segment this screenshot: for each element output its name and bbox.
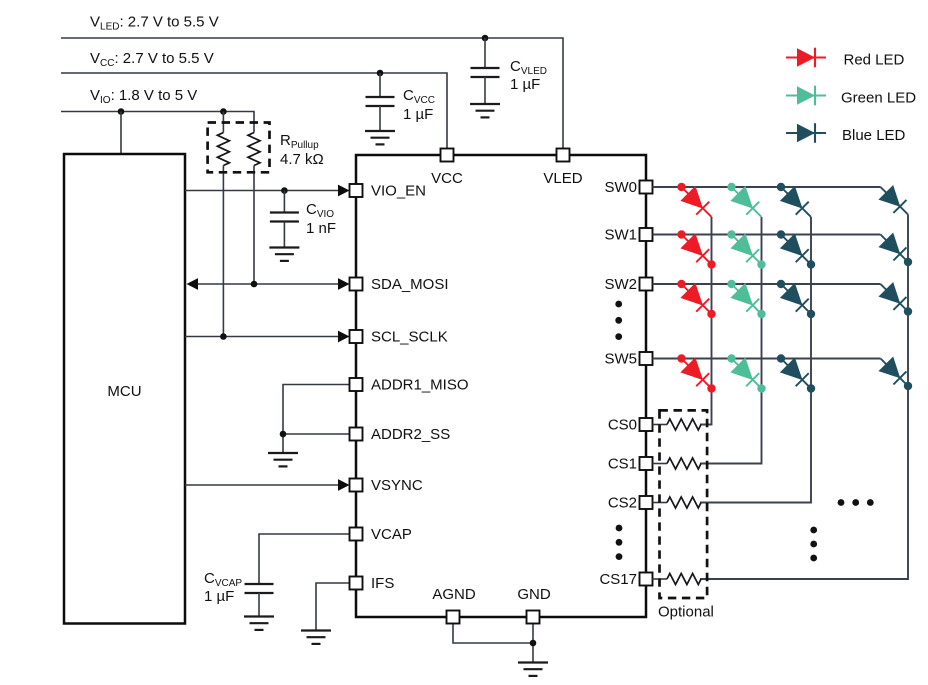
svg-text:CS1: CS1 [608,456,637,473]
wire VIO rail [61,112,254,133]
resistor CS1 ballast [653,463,668,465]
capacitor CVCAP [245,584,274,593]
pin GND [527,611,540,624]
wire far blue column to CS17 [700,215,908,580]
svg-text:1 µF: 1 µF [204,588,234,605]
wire IFS [316,583,350,631]
node blue far column / SW1 cathode junction [904,258,912,266]
svg-text:GND: GND [517,586,551,603]
svg-text:SCL_SCLK: SCL_SCLK [371,329,448,346]
LED blue SW2 [774,277,819,322]
pin CS2 [640,496,653,509]
dashed box Optional resistors [660,410,708,598]
pin SDA_MOSI [350,278,363,291]
ground CVLED [470,104,500,117]
pin ADDR1_MISO [350,378,363,391]
pin SW0 [640,181,653,194]
node red column / SW2 cathode junction [707,310,715,318]
wire blue column to CS2 [700,217,811,503]
arrowhead into SCL_SCLK pin [338,331,350,343]
svg-text:VIO_EN: VIO_EN [371,183,426,200]
svg-text:SW2: SW2 [604,276,637,293]
wire VIO_EN [185,190,340,192]
LED red SW2 [674,277,719,322]
svg-text:SW5: SW5 [604,351,637,368]
LED green SW5 [724,351,769,396]
node blue far column / SW2 cathode junction [904,307,912,315]
capacitor CVLED [471,68,500,77]
svg-text:CS17: CS17 [599,571,637,588]
svg-text:SW0: SW0 [604,179,637,196]
wire CVCAP to ground [258,593,260,617]
pin VLED [557,149,570,162]
LED blue far SW0 [873,180,915,222]
svg-text:CS2: CS2 [608,495,637,512]
wire red column to CS0 [700,217,712,425]
LED red SW0 [674,180,719,225]
svg-text:VLED: VLED [543,170,582,187]
wire CVIO lead [283,191,285,213]
wire AGND [453,624,533,644]
svg-text:SDA_MOSI: SDA_MOSI [371,276,449,293]
svg-text:MCU: MCU [107,383,141,400]
pin IFS [350,577,363,590]
svg-text:VSYNC: VSYNC [371,477,423,494]
LED green SW1 [724,227,769,272]
wire CVLED to ground [484,77,486,104]
node VCC/CVCC junction [377,70,384,77]
svg-text:CS0: CS0 [608,417,637,434]
svg-text:Optional: Optional [658,604,714,621]
wire ADDR2_SS [283,433,350,435]
pin VSYNC [350,479,363,492]
svg-text:1 nF: 1 nF [306,220,336,237]
pin CS17 [640,573,653,586]
node R2/SDA junction [251,281,258,288]
LED blue far SW2 [873,277,915,319]
pin AGND [447,611,460,624]
resistor Rpullup 1 [217,133,229,166]
node VIO/R1 junction [220,108,227,115]
ground ADDR [268,453,298,466]
node green column / SW1 cathode junction [757,260,765,268]
LED blue far SW5 [873,351,915,393]
pin SCL_SCLK [350,330,363,343]
arrowhead into VIO_EN pin [338,185,350,197]
LED green SW0 [724,180,769,225]
ellipsis CS2..CS17 [616,525,623,532]
svg-text:SW1: SW1 [604,227,637,244]
wire VCAP [259,534,350,584]
wire SDA_MOSI [192,283,340,285]
LED blue SW1 [774,227,819,272]
ground CVIO [269,248,299,261]
legend Red LED symbol [786,48,826,68]
node R1/SCL junction [220,333,227,340]
resistor CS17 ballast [653,578,668,580]
node red column / SW1 cathode junction [707,260,715,268]
LED red SW1 [674,227,719,272]
resistor CS2 ballast [653,502,668,504]
wire ADDR1_MISO [283,385,350,454]
wire CVCC lead [379,73,381,97]
svg-text:4.7 kΩ: 4.7 kΩ [280,151,324,168]
wire R2 bottom lead to SDA [253,166,255,285]
wire CVIO to ground [283,222,285,248]
LED red SW5 [674,351,719,396]
pin VIO_EN [350,184,363,197]
svg-text:ADDR2_SS: ADDR2_SS [371,426,450,443]
node AGND/GND junction [530,640,537,647]
ellipsis more columns right [838,499,845,506]
arrowhead into SDA_MOSI pin [338,278,350,290]
svg-text:IFS: IFS [371,575,394,592]
wire CVCC to ground [379,106,381,131]
ground CVCC [365,131,395,144]
svg-text:1 µF: 1 µF [403,106,433,123]
wire SW1 row [653,234,881,236]
pin SW2 [640,278,653,291]
legend Blue LED symbol [786,123,826,143]
wire SCL_SCLK [185,336,340,338]
wire SW2 row [653,283,881,285]
svg-text:1 µF: 1 µF [510,76,540,93]
node VLED/CVLED junction [482,35,489,42]
arrowhead into VSYNC pin [338,479,350,491]
wire VSYNC [185,484,340,486]
svg-text:VCC: VCC [431,170,463,187]
node green column / SW2 cathode junction [757,310,765,318]
svg-text:ADDR1_MISO: ADDR1_MISO [371,377,469,394]
ellipsis SW2..SW5 [615,301,622,308]
svg-text:AGND: AGND [432,586,476,603]
svg-text:Blue LED: Blue LED [842,127,906,144]
wire R1 bottom lead to SCL [222,166,224,337]
wire R1 top lead [222,112,224,133]
resistor CS0 ballast [653,424,668,426]
pin VCAP [350,528,363,541]
wire VIO to MCU [120,112,122,155]
wire SW0 row [653,186,881,188]
pin CS0 [640,418,653,431]
pin ADDR2_SS [350,428,363,441]
node blue far column / SW5 cathode junction [904,382,912,390]
wire SW5 row [653,358,881,360]
ground GND [518,663,548,676]
MCU box [64,154,185,624]
node green column / SW5 cathode junction [757,384,765,392]
pin SW5 [640,352,653,365]
node CVIO junction [281,187,288,194]
LED blue far SW1 [873,227,915,269]
legend Green LED symbol [786,86,826,106]
wire VCC rail [61,73,447,149]
pin SW1 [640,228,653,241]
wire CVLED lead [484,38,486,68]
IC LED-driver box [356,155,646,617]
ellipsis below blue column [810,527,817,534]
LED blue SW0 [774,180,819,225]
node blue column / SW2 cathode junction [807,310,815,318]
pin CS1 [640,457,653,470]
node ADDR junction [280,431,287,438]
dashed box around Rpullup [208,123,270,173]
svg-text:Green LED: Green LED [841,90,916,107]
node blue column / SW1 cathode junction [807,260,815,268]
svg-text:VCAP: VCAP [371,526,412,543]
LED blue SW5 [774,351,819,396]
wire green column to CS1 [700,217,762,464]
wire VLED rail [61,38,563,149]
wire GND [532,624,534,663]
capacitor CVCC [366,97,395,106]
arrowhead into MCU (SDA) [187,278,199,290]
capacitor CVIO [270,213,299,222]
ground CVCAP [244,617,274,630]
resistor Rpullup 2 [248,133,260,166]
node VIO/MCU junction [118,108,125,115]
node red column / SW5 cathode junction [707,384,715,392]
pin VCC [441,149,454,162]
svg-text:Red LED: Red LED [844,52,905,69]
node blue column / SW5 cathode junction [807,384,815,392]
LED green SW2 [724,277,769,322]
ground IFS [301,631,331,644]
